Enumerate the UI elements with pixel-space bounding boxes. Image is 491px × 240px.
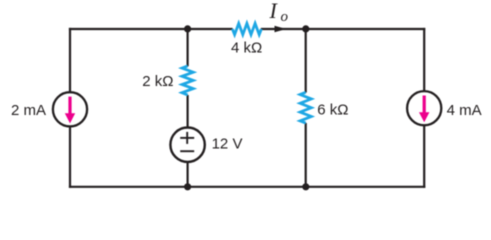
junction dot bottom branch3	[302, 183, 309, 190]
svg-text:4 kΩ: 4 kΩ	[231, 40, 262, 57]
wire left lower	[69, 126, 71, 188]
current source 2 mA arrow	[65, 97, 75, 124]
current source 2 mA	[53, 92, 87, 126]
wire top-left segment	[69, 28, 233, 30]
wire branch3 lower	[305, 123, 307, 188]
resistor 6 kOhm	[300, 92, 311, 123]
resistor 2 kOhm	[182, 66, 193, 95]
wire right upper	[423, 28, 425, 91]
svg-text:I: I	[269, 0, 279, 23]
wire branch2 lower	[187, 162, 189, 188]
wire bottom	[69, 186, 425, 188]
wire left upper	[69, 28, 71, 93]
wire branch3 upper	[305, 29, 307, 93]
voltage source plus sign	[180, 132, 194, 144]
svg-text:2 mA: 2 mA	[11, 102, 46, 119]
junction dot top branch3	[302, 25, 309, 32]
current source 4 mA arrow	[419, 96, 429, 123]
voltage source minus sign	[180, 150, 194, 152]
voltage source 12 V	[170, 128, 204, 162]
junction dot bottom branch2	[184, 183, 191, 190]
svg-text:o: o	[281, 9, 289, 25]
svg-text:4 mA: 4 mA	[447, 102, 482, 119]
label Io	[269, 0, 289, 25]
current arrow Io on top wire	[275, 26, 287, 32]
current source 4 mA	[407, 91, 441, 125]
junction dot top branch2	[184, 25, 191, 32]
svg-text:12 V: 12 V	[212, 135, 243, 152]
wire top-right segment	[261, 28, 425, 30]
wire right lower	[423, 125, 425, 188]
wire branch2 middle	[187, 95, 189, 127]
resistor 4 kOhm	[232, 23, 261, 34]
svg-text:2 kΩ: 2 kΩ	[142, 73, 173, 90]
wire branch2 upper	[187, 29, 189, 66]
svg-text:6 kΩ: 6 kΩ	[317, 102, 348, 119]
